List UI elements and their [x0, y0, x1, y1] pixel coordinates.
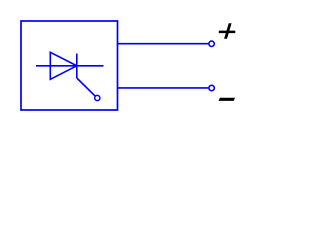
- gate terminal circle: [95, 95, 100, 100]
- thyristor D1 anode-cathode horizontal lead: [36, 65, 104, 67]
- wire: positive output: [118, 43, 209, 45]
- thyristor D1 cathode bar: [76, 54, 78, 78]
- terminal circle: positive output: [209, 41, 214, 46]
- wire: negative output: [118, 87, 209, 89]
- thyristor D1 triangle: [50, 52, 77, 79]
- terminal circle: negative output: [209, 85, 214, 90]
- rectifier module box U1: [21, 21, 118, 110]
- label: plus sign: [219, 23, 236, 39]
- label: minus sign: [219, 98, 236, 101]
- thyristor D1 gate lead: [77, 78, 95, 96]
